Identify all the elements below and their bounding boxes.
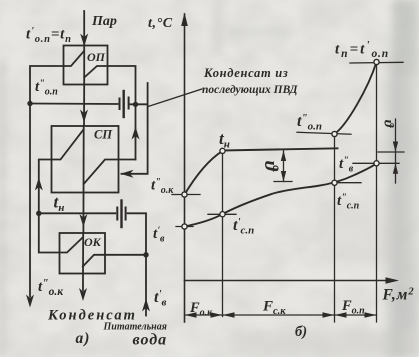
arrow: steam down into ОП (80, 34, 88, 47)
svg-text:ОП: ОП (87, 50, 106, 64)
label Конденсат из (203, 66, 288, 80)
label t'_в upper (153, 226, 165, 245)
label theta mid (260, 161, 281, 172)
restrictor lower: short bar (116, 208, 118, 220)
arrow: F_ок left (185, 312, 197, 317)
label а) (76, 330, 91, 347)
arrow: water up in riser (132, 127, 140, 140)
label t_п = t'_оп (335, 40, 389, 61)
construction vertical V1 at F_ок boundary (222, 151, 224, 317)
dimension line F_оп (335, 314, 377, 316)
label F,м² (382, 287, 415, 304)
arrow: condensate down into ОК (79, 214, 87, 227)
label ОП (87, 50, 106, 64)
construction vertical V3 at F_оп boundary (376, 62, 378, 322)
node: feedwater junction (143, 252, 148, 257)
СП heating-surface zigzag (52, 130, 119, 185)
wire: steam pipe through ОП box (83, 46, 85, 85)
arrow: F_ск left (223, 312, 235, 317)
wire: СП right shelf extension to riser (119, 159, 136, 161)
wire: upper bypass line left part (30, 103, 118, 106)
tick: t_н level right extension (378, 151, 404, 153)
tick: t''_сп level under mid theta (274, 181, 292, 183)
label F_оп (341, 298, 365, 317)
dimension: mid theta arrow line (283, 150, 285, 182)
label Пар (91, 14, 117, 29)
wire: steam inlet pipe (Пар) (83, 11, 85, 46)
arrow: mid theta up (281, 150, 286, 161)
restrictor (water seal) upper: short bar (119, 99, 121, 110)
label t_н graph (219, 129, 230, 151)
tick: t''_сп level right of point (338, 182, 361, 184)
arrow: right theta down to t_н (393, 142, 398, 153)
t_н saturation line (223, 148, 338, 150)
arrow: x axis right (386, 277, 400, 284)
node: point t''_оп (332, 131, 337, 136)
wire: ОК right shelf to feedwater junction (105, 254, 146, 256)
node: point t''_сп (332, 180, 337, 185)
wire: СП left shelf extension and down leg to ОК left shelf (39, 160, 60, 253)
svg-text:ϑ: ϑ (381, 120, 396, 128)
wire: СП center pipe down through box to ОК (82, 126, 84, 233)
tick: t''_в marker (353, 162, 399, 164)
pointer line from label to cascade pipe (148, 89, 202, 107)
svg-text:б): б) (295, 324, 307, 340)
svg-text:Конденсат из: Конденсат из (203, 66, 288, 80)
label t''_оп left (35, 79, 58, 98)
wire: ОП left shelf out and down (feedwater outlet drop) (30, 66, 64, 297)
label t'_сп graph (233, 216, 254, 237)
label последующих ПВД (202, 84, 299, 96)
label ОК (84, 235, 102, 249)
arrow: condensate out down (79, 288, 87, 301)
node: junction ОП drain / bypass (27, 101, 32, 106)
wire: lower bypass line left part (t_н line) (39, 212, 116, 214)
dimension line F_ок (185, 314, 223, 316)
label t''_сп graph (337, 193, 360, 212)
node: point t'_в (182, 224, 187, 229)
svg-text:t,°С: t,°С (148, 16, 173, 31)
x axis F,м² (185, 280, 396, 282)
arrow: feedwater line down exit (26, 295, 34, 308)
arrow: mid theta down (281, 171, 286, 182)
label б) (295, 324, 307, 340)
label F_ск (262, 299, 286, 318)
arrow: F_оп right (365, 312, 377, 317)
label СП (94, 128, 113, 142)
tick: t''_ок level on axis (172, 194, 200, 196)
label t,°C (148, 16, 173, 31)
wire: ОК condensate outlet pipe down (82, 233, 84, 290)
label Питательная (103, 322, 167, 333)
svg-text:СП: СП (94, 128, 113, 142)
heat exchanger ОК (drain cooler) box (60, 233, 106, 274)
node: junction t_н line (36, 211, 41, 216)
heat exchanger СП (main heater) box (52, 126, 119, 193)
wire: upper bypass line right part (131, 103, 148, 105)
dimension: right theta arrow line (395, 119, 397, 183)
wire: cascade drain from subsequent HPH down (122, 83, 148, 174)
restrictor upper: tall bar (122, 91, 124, 117)
node: point t''_ок (182, 192, 187, 197)
arrow: F_оп left (335, 312, 347, 317)
steam desuperheating curve (ОП zone) (335, 62, 377, 134)
wire: ОП to СП steam pipe (83, 85, 85, 127)
label t_н schematic (54, 193, 65, 215)
tick: t'_сп marker (208, 213, 236, 215)
arrow: y axis up (181, 13, 188, 27)
label t''_оп graph (297, 112, 322, 133)
arrow: cascade drain into СП (121, 170, 134, 178)
restrictor upper: short bar (128, 98, 130, 109)
tick: t_п marker (350, 61, 403, 64)
arrow: steam down into СП (80, 110, 88, 123)
svg-text:Пар: Пар (91, 14, 117, 29)
node: point t''_в (374, 161, 379, 166)
construction vertical V2 at F_сп boundary (334, 134, 336, 322)
label F_ок (189, 300, 213, 319)
label вода (133, 332, 168, 349)
label theta right (381, 120, 396, 128)
svg-text:ϑ: ϑ (260, 161, 281, 172)
dimension line F_ск (223, 314, 335, 316)
label t'_в lower (154, 288, 167, 309)
wire: ОП right shelf to riser junction and СП right shelf riser (108, 66, 136, 160)
drain cooling curve (ОК zone) (185, 151, 223, 195)
arrow: F_ок right (211, 312, 223, 317)
label t''_ок right of СП (151, 177, 174, 196)
ОП heating-surface zigzag (64, 51, 108, 78)
node: point t'_сп (220, 212, 225, 217)
svg-text:вода: вода (133, 332, 168, 349)
feedwater heating curve (185, 163, 377, 226)
node: point t_н (220, 148, 225, 153)
heat exchanger ОП (steam cooler) box (64, 46, 108, 85)
label t''_ок bottom (38, 278, 64, 299)
ОК heating-surface zigzag (60, 238, 106, 267)
svg-text:последующих ПВД: последующих ПВД (202, 84, 299, 96)
arrow: right theta up to t''_в (393, 163, 398, 173)
arrow: feedwater up into СП (35, 178, 43, 191)
tick: t'_в level on axis (176, 226, 193, 228)
y axis t,°C (184, 14, 186, 322)
arrow: feedwater up inlet (142, 299, 150, 312)
label t'_оп = t_п (26, 26, 72, 45)
wire: lower bypass right part down to feedwater junction (128, 213, 146, 255)
node: junction bypass / riser (133, 102, 138, 107)
restrictor lower: tall bar (120, 201, 122, 228)
label t''_в graph (339, 156, 354, 175)
svg-text:ОК: ОК (84, 235, 102, 249)
arrow: F_ск right (323, 312, 335, 317)
wire: feedwater inlet riser (145, 255, 147, 316)
node: point t_п (374, 59, 379, 64)
restrictor lower: short bar (125, 208, 127, 220)
tick: t''_оп marker (297, 132, 351, 134)
svg-text:а): а) (76, 330, 91, 347)
label Конденсат (47, 308, 137, 324)
